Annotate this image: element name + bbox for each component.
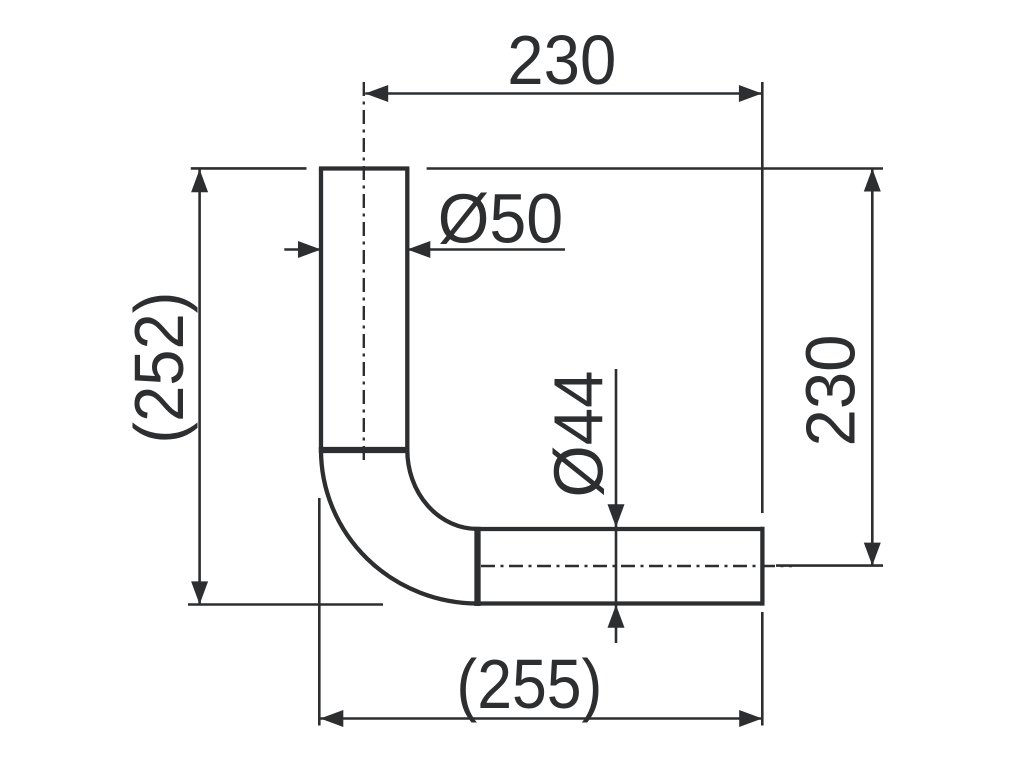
- svg-text:Ø44: Ø44: [539, 371, 617, 498]
- svg-text:230: 230: [792, 335, 870, 447]
- svg-text:(252): (252): [120, 292, 198, 444]
- svg-text:Ø50: Ø50: [438, 180, 564, 258]
- svg-text:230: 230: [507, 21, 616, 99]
- svg-text:(255): (255): [456, 645, 602, 723]
